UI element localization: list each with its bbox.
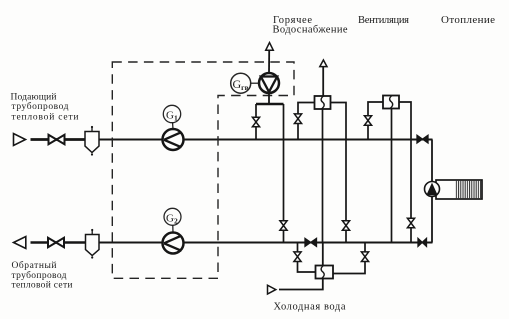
node: ventilation outlet arrow [320,60,327,67]
valve on cold water right drop [361,252,368,262]
circulation pump at heater [425,182,440,197]
svg-text:Подающий: Подающий [11,92,57,103]
node: return outlet arrow [14,237,26,249]
node: cold water inlet arrow [268,285,276,294]
wire: supply inlet thick segment [31,138,87,141]
svg-text:Вентиляция: Вентиляция [358,15,409,26]
pump G1 [163,129,184,150]
valve on ventilation left bypass [294,114,301,124]
mud filter on return [86,229,100,259]
pump Ggw (hot water) [259,73,279,93]
label circle Ggw [231,73,260,93]
regulator valve (cold water) [316,266,334,279]
wire: hot water riser above pump [268,51,270,74]
valve on hot water left branch [252,117,259,127]
regulator valve (heating) [383,96,399,109]
wire: hot water T-bar [256,103,284,105]
wire: ventilation right branch [331,103,347,243]
node: hot water outlet arrow [266,43,274,51]
valve on heating right branch [407,218,414,228]
valve on return outlet [48,238,64,247]
svg-text:G2: G2 [166,212,178,225]
wire: return inlet thick segment [31,241,87,244]
wire: cold water left drop [298,243,316,273]
svg-text:Gгв: Gгв [233,77,249,92]
wire: hot water right branch down to return [283,104,285,243]
wire: heating left branch [368,102,383,140]
svg-text:Обратный: Обратный [12,260,57,271]
label circle G2 [164,208,181,232]
wire: return main line [31,242,433,244]
pump G2 [163,233,184,254]
wire: hot water left branch [255,104,257,140]
svg-text:трубопровод: трубопровод [12,270,67,281]
label circle G1 [163,105,180,129]
wire: cold water inlet [279,279,323,290]
valve (filled) on return mid [305,238,317,246]
wire: right riser to heater [431,140,433,243]
svg-text:Отопление: Отопление [441,14,495,26]
valve (filled) on return before heater [418,238,427,246]
valve on hot water right branch [280,221,287,231]
svg-text:тепловой сети: тепловой сети [12,280,73,291]
dashed boundary of substation unit [112,62,294,278]
mud filter on supply [85,126,99,156]
wire: cold water right drop [333,243,365,274]
wire: ventilation center drop to return [322,109,324,243]
valve on supply inlet [49,135,65,144]
wire: ventilation riser [322,67,324,96]
wire: cold water regulator riser to return [322,243,324,267]
svg-text:трубопровод: трубопровод [12,101,69,112]
svg-text:Холодная вода: Холодная вода [274,302,346,313]
wire: supply main line [31,139,433,141]
valve on ventilation right branch [342,221,349,231]
heater coil (Otoplenie) [436,180,482,199]
node: supply inlet arrow [14,134,26,146]
svg-text:G1: G1 [166,110,178,123]
regulator valve (ventilation) [315,96,331,109]
valve on cold water left drop [294,252,301,262]
wire: hot water pump outlet [268,93,270,105]
valve (filled) on supply before heater [417,135,428,143]
wire: ventilation left bypass [298,103,315,140]
wire: heating center drop to return [391,109,393,243]
wire: heating right branch down to return [399,102,411,243]
svg-text:тепловой сети: тепловой сети [12,112,79,123]
svg-text:Водоснабжение: Водоснабжение [273,25,348,36]
valve on heating left branch [364,116,371,126]
